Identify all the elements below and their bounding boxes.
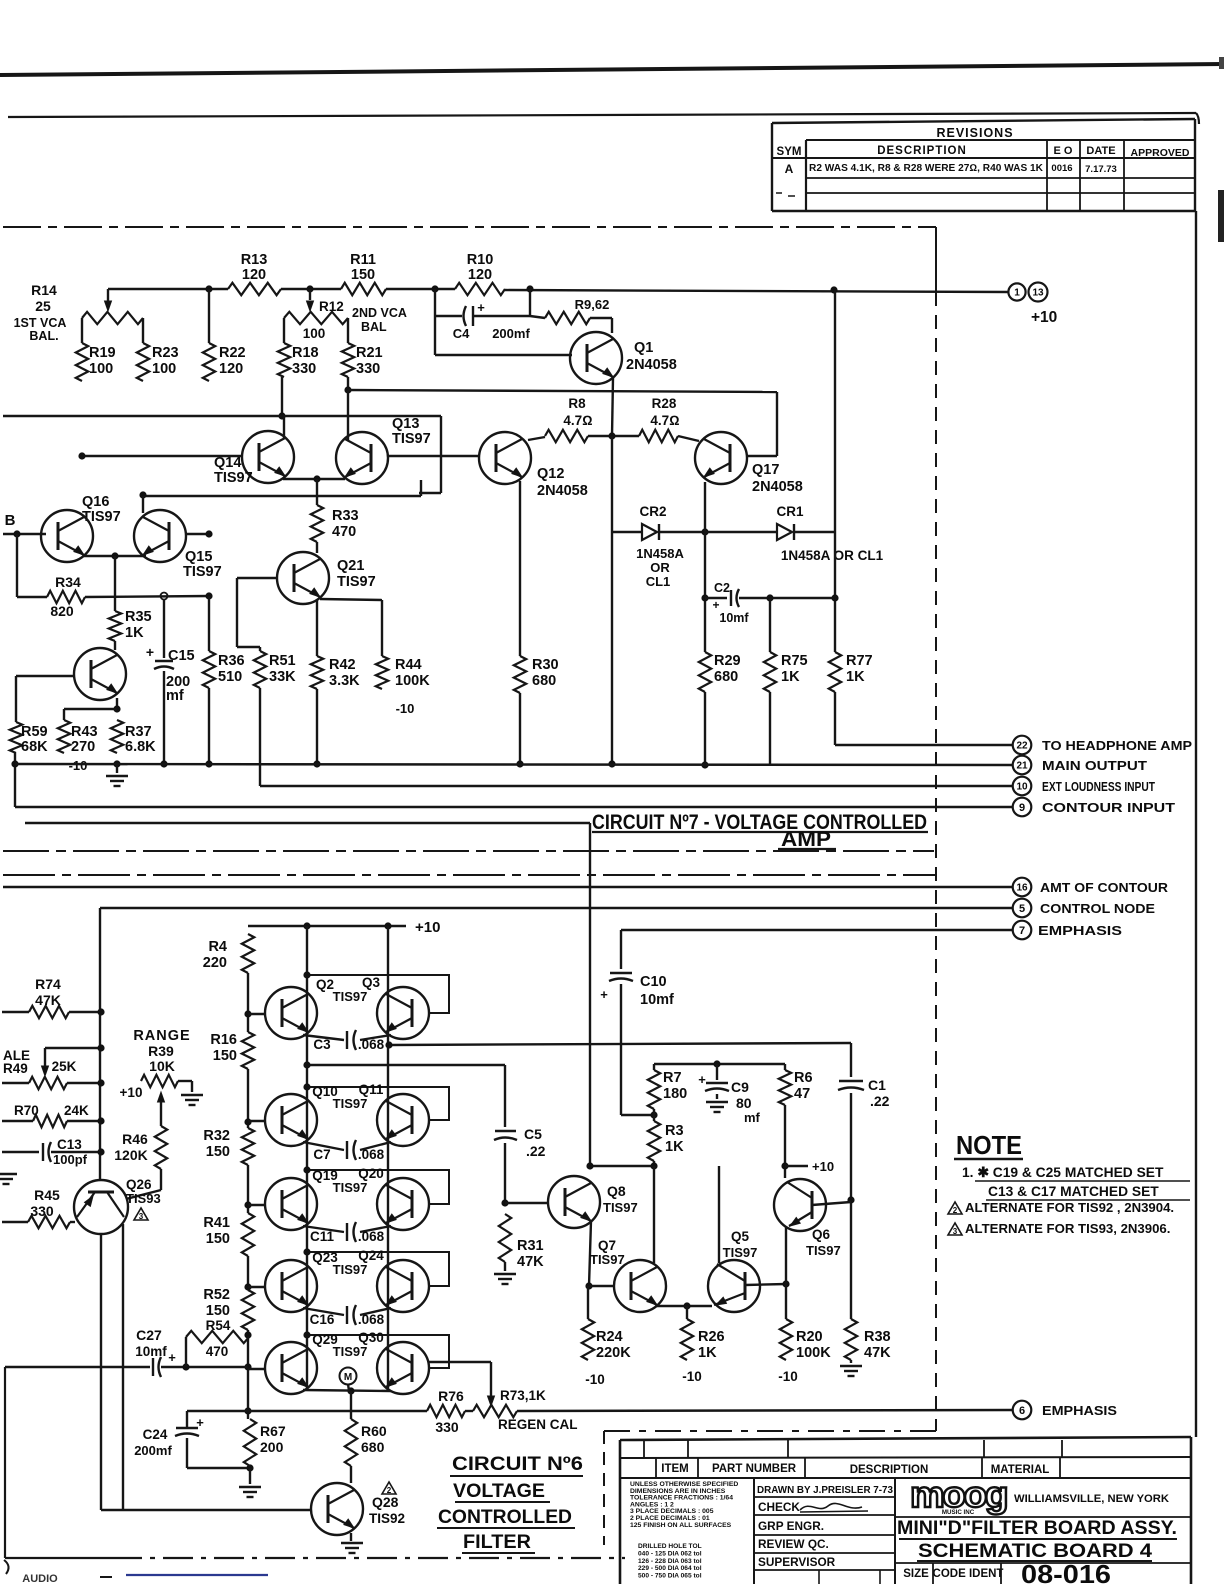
svg-text:100pf: 100pf [53,1152,88,1167]
svg-text:Q5: Q5 [731,1229,750,1244]
svg-text:R77: R77 [846,653,873,669]
svg-text:CODE IDENT: CODE IDENT [933,1568,1004,1580]
svg-text:1ST VCA: 1ST VCA [14,316,67,330]
svg-text:08-016: 08-016 [1021,1559,1111,1584]
svg-text:040 - 125 DIA 062 tol: 040 - 125 DIA 062 tol [638,1550,702,1557]
svg-text:330: 330 [435,1419,459,1435]
svg-text:80: 80 [736,1095,752,1111]
svg-text:.068: .068 [358,1312,385,1327]
svg-text:BAL.: BAL. [29,329,58,343]
svg-text:B: B [5,512,16,529]
svg-text:C9: C9 [731,1079,749,1095]
svg-text:CIRCUIT Nº7 - VOLTAGE CONTROLL: CIRCUIT Nº7 - VOLTAGE CONTROLLED [592,811,927,834]
svg-text:25K: 25K [52,1059,77,1074]
svg-text:TIS97: TIS97 [183,564,222,580]
svg-text:Q6: Q6 [812,1227,831,1242]
svg-text:270: 270 [71,739,95,755]
svg-text:R12: R12 [319,299,344,314]
svg-text:Q8: Q8 [607,1183,626,1199]
svg-text:R45: R45 [34,1187,60,1203]
svg-text:.068: .068 [358,1147,385,1162]
svg-text:R6: R6 [794,1070,813,1086]
svg-text:C3: C3 [313,1037,331,1052]
svg-text:R60: R60 [361,1423,387,1439]
svg-text:16: 16 [1016,883,1028,894]
svg-text:-10: -10 [396,701,415,716]
svg-text:DRAWN BY J.PREISLER 7-73: DRAWN BY J.PREISLER 7-73 [757,1485,893,1496]
svg-text:R26: R26 [698,1329,725,1345]
svg-text:EMPHASIS: EMPHASIS [1042,1404,1117,1418]
svg-text:BAL: BAL [361,320,387,334]
svg-text:EXT LOUDNESS INPUT: EXT LOUDNESS INPUT [1042,780,1155,794]
svg-text:680: 680 [532,673,556,689]
svg-text:2N4058: 2N4058 [537,483,588,499]
svg-text:R54: R54 [206,1318,231,1333]
svg-text:R39: R39 [148,1043,174,1059]
svg-text:RANGE: RANGE [133,1028,190,1044]
svg-text:6: 6 [1019,1405,1025,1417]
svg-text:TIS97: TIS97 [333,989,368,1004]
svg-text:R37: R37 [125,724,152,740]
svg-text:C2: C2 [714,581,730,595]
svg-text:R38: R38 [864,1329,891,1345]
svg-text:TIS97: TIS97 [333,1262,368,1277]
svg-text:R7: R7 [663,1070,682,1086]
svg-text:.22: .22 [526,1143,546,1159]
svg-text:SUPERVISOR: SUPERVISOR [758,1555,836,1569]
svg-text:Q1: Q1 [634,340,653,356]
svg-text:R32: R32 [203,1128,230,1144]
svg-text:R34: R34 [55,574,81,590]
svg-text:TIS97: TIS97 [333,1344,368,1359]
svg-text:R28: R28 [652,396,677,411]
svg-text:R41: R41 [203,1215,230,1231]
svg-text:R29: R29 [714,653,741,669]
svg-text:10K: 10K [149,1058,175,1074]
svg-text:22: 22 [1016,741,1028,752]
svg-text:+10: +10 [415,919,440,936]
svg-text:Q26: Q26 [126,1177,152,1192]
svg-text:C13: C13 [57,1137,82,1152]
svg-text:R14: R14 [31,282,57,298]
svg-text:150: 150 [206,1303,230,1319]
svg-text:R3: R3 [665,1123,684,1139]
svg-text:Q14: Q14 [214,455,241,471]
svg-text:C5: C5 [524,1126,542,1142]
svg-text:820: 820 [50,603,74,619]
svg-text:DESCRIPTION: DESCRIPTION [877,145,967,157]
svg-text:Q20: Q20 [358,1166,384,1181]
svg-text:1: 1 [1014,288,1020,299]
svg-text:R21: R21 [356,345,383,361]
svg-text:Q28: Q28 [372,1494,399,1510]
svg-text:2N4058: 2N4058 [752,479,803,495]
svg-text:Q3: Q3 [362,975,381,990]
svg-text:R51: R51 [269,653,296,669]
svg-text:9: 9 [1019,802,1025,814]
svg-text:100K: 100K [796,1345,831,1361]
svg-text:SYM: SYM [777,146,802,158]
svg-text:R67: R67 [260,1423,286,1439]
svg-text:TIS97: TIS97 [333,1096,368,1111]
svg-text:4.7Ω: 4.7Ω [650,413,679,428]
svg-text:Q16: Q16 [82,494,109,510]
svg-text:R4: R4 [208,939,227,955]
svg-text:220: 220 [203,955,227,971]
svg-text:330: 330 [30,1203,54,1219]
svg-text:REVIEW QC.: REVIEW QC. [758,1537,829,1551]
svg-text:C27: C27 [136,1327,162,1343]
svg-text:AMT OF CONTOUR: AMT OF CONTOUR [1040,881,1168,895]
svg-text:Q2: Q2 [316,977,334,992]
svg-text:Q7: Q7 [598,1238,616,1253]
svg-text:REGEN CAL: REGEN CAL [498,1417,578,1432]
svg-text:229 - 500 DIA 064 tol: 229 - 500 DIA 064 tol [638,1565,702,1572]
svg-text:25: 25 [35,298,51,314]
svg-text:1N458A: 1N458A [636,546,684,561]
svg-text:C15: C15 [168,648,195,664]
svg-text:Q30: Q30 [358,1330,384,1345]
svg-text:1. ✱ C19 & C25 MATCHED SET: 1. ✱ C19 & C25 MATCHED SET [962,1165,1164,1180]
svg-text:TIS97: TIS97 [82,509,121,525]
svg-text:C16: C16 [310,1312,335,1327]
svg-text:470: 470 [332,524,356,540]
svg-text:1K: 1K [665,1139,684,1155]
svg-text:R75: R75 [781,653,808,669]
svg-text:47K: 47K [35,992,61,1008]
svg-text:R52: R52 [203,1287,230,1303]
svg-text:Q21: Q21 [337,558,364,574]
svg-text:R16: R16 [210,1032,237,1048]
svg-text:68K: 68K [21,739,48,755]
svg-text:C13 & C17 MATCHED SET: C13 & C17 MATCHED SET [988,1184,1159,1199]
svg-text:GRP ENGR.: GRP ENGR. [758,1519,824,1533]
svg-text:.068: .068 [358,1229,385,1244]
svg-text:R73,1K: R73,1K [500,1388,546,1403]
svg-text:R70: R70 [14,1103,39,1118]
svg-text:TIS97: TIS97 [806,1243,841,1258]
svg-text:+10: +10 [120,1085,143,1100]
svg-text:R43: R43 [71,724,98,740]
svg-text:C11: C11 [310,1229,335,1244]
svg-text:150: 150 [206,1144,230,1160]
svg-text:.068: .068 [358,1037,385,1052]
svg-text:R23: R23 [152,345,179,361]
svg-text:47K: 47K [864,1345,891,1361]
svg-text:4.7Ω: 4.7Ω [563,413,592,428]
svg-text:510: 510 [218,669,242,685]
svg-text:R49: R49 [3,1061,28,1076]
svg-text:Q12: Q12 [537,466,564,482]
svg-text:-10: -10 [69,758,88,773]
svg-text:100: 100 [303,326,326,341]
svg-text:TIS92: TIS92 [369,1511,405,1526]
svg-text:10mf: 10mf [135,1344,167,1359]
svg-text:MUSIC INC: MUSIC INC [942,1509,975,1516]
svg-text:TIS97: TIS97 [337,574,376,590]
svg-text:REVISIONS: REVISIONS [936,126,1013,140]
svg-text:+: + [600,987,608,1002]
svg-text:100: 100 [89,361,113,377]
svg-text:680: 680 [714,669,738,685]
svg-text:120: 120 [219,361,243,377]
svg-text:OR: OR [650,560,670,575]
svg-text:C4: C4 [453,326,470,341]
svg-text:R46: R46 [122,1131,148,1147]
svg-text:R42: R42 [329,657,356,673]
svg-text:47: 47 [794,1086,810,1102]
svg-text:150: 150 [213,1048,237,1064]
svg-text:33K: 33K [269,669,296,685]
svg-text:SIZE: SIZE [903,1568,929,1580]
svg-text:R13: R13 [241,252,268,268]
svg-text:R2 WAS 4.1K, R8 & R28 WERE 27Ω: R2 WAS 4.1K, R8 & R28 WERE 27Ω, R40 WAS … [809,163,1043,174]
svg-text:126 - 228 DIA 063 tol: 126 - 228 DIA 063 tol [638,1558,702,1565]
svg-text:CIRCUIT Nº6: CIRCUIT Nº6 [452,1454,583,1475]
svg-text:1K: 1K [698,1345,717,1361]
svg-text:CONTROLLED: CONTROLLED [438,1507,572,1528]
svg-text:2ND VCA: 2ND VCA [352,306,407,320]
svg-text:470: 470 [206,1344,229,1359]
svg-text:+: + [698,1072,706,1087]
svg-text:MAIN OUTPUT: MAIN OUTPUT [1042,759,1147,773]
svg-text:DRILLED HOLE TOL: DRILLED HOLE TOL [638,1543,702,1550]
svg-text:APPROVED: APPROVED [1131,147,1190,159]
svg-text:CL1: CL1 [646,574,671,589]
svg-text:330: 330 [356,361,380,377]
svg-text:TIS97: TIS97 [214,470,253,486]
svg-text:200mf: 200mf [134,1443,172,1458]
svg-text:ITEM: ITEM [661,1463,688,1475]
svg-text:R76: R76 [438,1388,464,1404]
svg-text:R18: R18 [292,345,319,361]
svg-text:CONTROL NODE: CONTROL NODE [1040,902,1155,916]
svg-text:7: 7 [1019,925,1025,937]
svg-text:TIS97: TIS97 [333,1180,368,1195]
svg-text:Q17: Q17 [752,462,779,478]
svg-text:500 - 750 DIA 065 tol: 500 - 750 DIA 065 tol [638,1573,702,1580]
svg-text:C10: C10 [640,974,667,990]
svg-text:M: M [344,1372,352,1383]
svg-text:CONTOUR INPUT: CONTOUR INPUT [1042,801,1175,815]
svg-text:120K: 120K [114,1147,147,1163]
svg-text:13: 13 [1032,288,1044,299]
svg-text:150: 150 [206,1231,230,1247]
svg-text:R30: R30 [532,657,559,673]
svg-text:+: + [168,1350,176,1365]
svg-text:R24: R24 [596,1329,623,1345]
svg-text:CHECK: CHECK [758,1500,800,1514]
svg-text:125 FINISH ON ALL SURFACES: 125 FINISH ON ALL SURFACES [630,1522,732,1529]
svg-text:3.3K: 3.3K [329,673,360,689]
svg-text:ALTERNATE FOR TIS93, 2N3906.: ALTERNATE FOR TIS93, 2N3906. [965,1221,1170,1236]
svg-text:3: 3 [953,1227,958,1236]
svg-text:R36: R36 [218,653,245,669]
svg-text:VOLTAGE: VOLTAGE [453,1481,545,1502]
svg-text:NOTE: NOTE [956,1130,1022,1160]
svg-text:R59: R59 [21,724,48,740]
svg-text:mf: mf [744,1110,761,1125]
svg-text:47K: 47K [517,1254,544,1270]
svg-text:2N4058: 2N4058 [626,357,677,373]
svg-text:24K: 24K [64,1103,89,1118]
svg-text:R19: R19 [89,345,116,361]
svg-text:.22: .22 [870,1093,890,1109]
svg-text:Q15: Q15 [185,549,212,565]
svg-text:A: A [785,162,794,176]
svg-text:AMP: AMP [781,828,831,851]
svg-text:TIS97: TIS97 [392,431,431,447]
svg-text:R31: R31 [517,1238,544,1254]
svg-text:10: 10 [1016,782,1028,793]
svg-text:5: 5 [1019,903,1025,915]
svg-text:R9,62: R9,62 [575,297,610,312]
svg-text:R44: R44 [395,657,422,673]
svg-text:+: + [477,300,485,315]
svg-text:R74: R74 [35,976,61,992]
svg-text:TO HEADPHONE AMP: TO HEADPHONE AMP [1042,739,1192,753]
svg-text:2: 2 [953,1206,958,1215]
svg-text:MINI"D"FILTER BOARD ASSY.: MINI"D"FILTER BOARD ASSY. [897,1517,1177,1539]
svg-text:1K: 1K [781,669,800,685]
svg-text:EMPHASIS: EMPHASIS [1038,924,1122,938]
svg-text:680: 680 [361,1439,385,1455]
svg-text:E O: E O [1054,145,1073,157]
svg-text:Q11: Q11 [359,1082,384,1097]
svg-text:Q24: Q24 [358,1248,384,1263]
svg-text:1N458A OR CL1: 1N458A OR CL1 [781,548,884,563]
svg-text:R11: R11 [350,252,376,268]
svg-text:+: + [146,644,154,660]
svg-text:R35: R35 [125,609,152,625]
svg-text:220K: 220K [596,1345,631,1361]
svg-text:7.17.73: 7.17.73 [1085,164,1117,175]
svg-text:10mf: 10mf [719,611,749,625]
svg-text:+10: +10 [812,1159,834,1174]
svg-text:180: 180 [663,1086,687,1102]
svg-text:PART NUMBER: PART NUMBER [712,1463,797,1475]
svg-text:TIS97: TIS97 [723,1245,758,1260]
svg-text:R8: R8 [568,396,586,411]
svg-text:1K: 1K [125,625,144,641]
svg-text:-10: -10 [682,1369,702,1384]
svg-text:-10: -10 [778,1369,798,1384]
svg-text:1K: 1K [846,669,865,685]
svg-text:DATE: DATE [1086,145,1115,157]
svg-text:0016: 0016 [1051,163,1072,174]
svg-text:FILTER: FILTER [463,1532,531,1553]
svg-text:200mf: 200mf [492,326,530,341]
svg-text:C24: C24 [143,1427,168,1442]
svg-text:3: 3 [139,1212,144,1221]
svg-text:+10: +10 [1031,309,1057,326]
svg-text:mf: mf [166,688,184,704]
svg-text:6.8K: 6.8K [125,739,156,755]
svg-text:200: 200 [260,1439,284,1455]
svg-text:R33: R33 [332,508,359,524]
svg-text:WILLIAMSVILLE, NEW YORK: WILLIAMSVILLE, NEW YORK [1014,1493,1169,1505]
svg-text:+: + [712,598,719,612]
svg-text:R22: R22 [219,345,246,361]
svg-text:ALTERNATE FOR TIS92 , 2N3904.: ALTERNATE FOR TIS92 , 2N3904. [965,1200,1174,1215]
svg-text:100K: 100K [395,673,430,689]
svg-text:+: + [196,1415,204,1430]
svg-text:R20: R20 [796,1329,823,1345]
svg-text:330: 330 [292,361,316,377]
svg-text:Q13: Q13 [392,416,419,432]
svg-text:100: 100 [152,361,176,377]
svg-text:TIS97: TIS97 [590,1252,625,1267]
svg-text:10mf: 10mf [640,992,674,1008]
svg-text:120: 120 [242,267,266,283]
svg-text:120: 120 [468,267,492,283]
svg-text:-10: -10 [585,1372,605,1387]
svg-text:AUDIO: AUDIO [22,1573,58,1584]
svg-text:CR1: CR1 [776,504,803,519]
svg-text:TIS97: TIS97 [603,1200,638,1215]
svg-text:R10: R10 [467,252,494,268]
svg-text:CR2: CR2 [639,504,666,519]
svg-text:150: 150 [351,267,375,283]
svg-text:21: 21 [1016,761,1028,772]
svg-text:C1: C1 [868,1077,886,1093]
svg-text:TIS93: TIS93 [126,1191,161,1206]
svg-text:C7: C7 [313,1147,330,1162]
